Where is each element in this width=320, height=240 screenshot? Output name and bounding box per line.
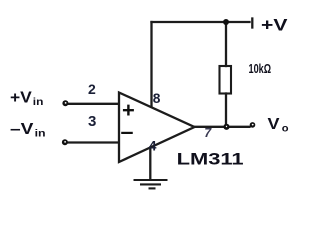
resistor R1 10k body bbox=[220, 66, 232, 94]
wire resistor top lead bbox=[225, 22, 227, 66]
svg-text:2: 2 bbox=[88, 81, 96, 97]
terminal Vo output bbox=[250, 122, 256, 128]
svg-text:10kΩ: 10kΩ bbox=[249, 62, 272, 76]
wire output pin 7 bbox=[195, 126, 250, 128]
svg-text:3: 3 bbox=[88, 113, 96, 130]
op-amp U1 LM311 triangle bbox=[119, 93, 195, 163]
svg-text:–V: –V bbox=[10, 121, 34, 138]
wire input pin 2 bbox=[67, 103, 118, 105]
svg-text:o: o bbox=[282, 123, 289, 135]
svg-text:LM311: LM311 bbox=[177, 150, 244, 169]
wire input pin 3 bbox=[66, 141, 118, 143]
terminal -Vin input bbox=[62, 139, 68, 145]
wire pin 4 to ground (vertical) bbox=[149, 148, 151, 180]
wire +V top rail (horizontal) bbox=[152, 21, 250, 23]
label Vo bbox=[268, 116, 289, 134]
terminal +Vin input bbox=[62, 100, 68, 106]
ground symbol bbox=[134, 180, 168, 188]
svg-text:+V: +V bbox=[261, 16, 288, 35]
node junction at output bbox=[223, 124, 229, 130]
svg-text:+V: +V bbox=[10, 89, 33, 106]
svg-text:–: – bbox=[121, 119, 134, 144]
label -Vin bbox=[10, 121, 46, 140]
svg-text:7: 7 bbox=[204, 126, 212, 140]
svg-text:in: in bbox=[33, 96, 44, 108]
label +Vin bbox=[10, 89, 43, 108]
wire pin 8 to +V rail (vertical) bbox=[150, 22, 152, 107]
+V terminal tick bbox=[251, 19, 253, 28]
wire resistor bottom lead bbox=[225, 94, 227, 127]
node junction at +V rail bbox=[223, 19, 229, 25]
svg-text:in: in bbox=[35, 128, 46, 140]
svg-text:8: 8 bbox=[153, 91, 161, 106]
svg-text:V: V bbox=[268, 116, 280, 133]
svg-text:4: 4 bbox=[149, 139, 157, 154]
